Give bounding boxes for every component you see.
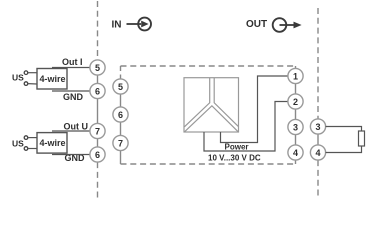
svg-text:2: 2 xyxy=(293,97,298,107)
terminal circle 6 (sensor rail) xyxy=(90,83,105,98)
svg-text:GND: GND xyxy=(63,92,84,102)
amplifier chevron stroke xyxy=(184,106,238,132)
svg-text:5: 5 xyxy=(95,63,100,73)
svg-text:OUT: OUT xyxy=(246,19,267,30)
device terminal circle 7 xyxy=(113,135,128,150)
svg-text:Power: Power xyxy=(225,143,249,152)
terminal circle 6 second (sensor rail) xyxy=(90,147,105,162)
device terminal circle 1 xyxy=(288,68,303,83)
svg-text:6: 6 xyxy=(95,150,100,160)
load wire from terminal 3 xyxy=(326,127,362,132)
terminal circle 5 (sensor rail) xyxy=(90,60,105,75)
wire Out I to terminal 5 xyxy=(52,67,90,69)
wire GND to terminal 6 (second) xyxy=(52,154,90,156)
svg-text:1: 1 xyxy=(293,72,298,82)
svg-text:4-wire: 4-wire xyxy=(40,138,66,148)
svg-text:IN: IN xyxy=(112,20,122,31)
svg-text:6: 6 xyxy=(118,110,123,120)
load resistor xyxy=(359,131,365,146)
left sensor-side dashed rail xyxy=(97,1,99,200)
svg-text:Out U: Out U xyxy=(64,122,89,132)
device terminal circle 6 xyxy=(113,107,128,122)
amplifier Y-symbol stroke 2 xyxy=(214,78,238,127)
amplifier Y-symbol stroke 1 xyxy=(184,78,209,127)
wire dot to 4-wire box top-a xyxy=(28,72,37,74)
device terminal circle 3 xyxy=(288,119,303,134)
wire Out U to terminal 7 xyxy=(52,130,90,132)
svg-text:4: 4 xyxy=(315,148,320,158)
svg-text:3: 3 xyxy=(315,122,320,132)
svg-text:4-wire: 4-wire xyxy=(40,74,66,84)
svg-text:6: 6 xyxy=(95,87,100,97)
terminal circle 7 (sensor rail) xyxy=(90,123,105,138)
svg-text:5: 5 xyxy=(118,82,123,92)
US terminal dot top-b xyxy=(24,82,28,86)
load wire from terminal 4 xyxy=(326,146,362,153)
device terminal circle 4 xyxy=(288,145,303,160)
right field-side dashed rail xyxy=(317,8,319,197)
svg-text:3: 3 xyxy=(293,123,298,133)
svg-text:US: US xyxy=(12,139,24,149)
device terminal circle 5 xyxy=(113,79,128,94)
US terminal dot bottom-a xyxy=(24,136,28,140)
device dashed outline box xyxy=(121,66,296,164)
wire GND to terminal 6 xyxy=(52,90,90,92)
4-wire transmitter box (bottom) xyxy=(37,133,67,154)
svg-text:Out I: Out I xyxy=(62,57,83,67)
US terminal dot bottom-b xyxy=(24,147,28,151)
svg-text:4: 4 xyxy=(293,148,298,158)
wire dot to 4-wire box bottom-a xyxy=(28,137,37,139)
power wire to terminal 2 xyxy=(204,102,288,152)
svg-text:US: US xyxy=(12,73,24,83)
IN port symbol xyxy=(127,18,152,31)
power wire to terminal 1 xyxy=(221,76,288,143)
field terminal circle 4 xyxy=(310,145,325,160)
4-wire transmitter box (top) xyxy=(37,69,67,90)
US terminal dot top-a xyxy=(24,71,28,75)
wire dot to 4-wire box top-b xyxy=(28,83,37,85)
OUT port symbol xyxy=(273,18,302,32)
field terminal circle 3 xyxy=(310,119,325,134)
device terminal circle 2 xyxy=(288,94,303,109)
wire dot to 4-wire box bottom-b xyxy=(28,148,37,150)
svg-text:7: 7 xyxy=(95,127,100,137)
svg-text:10 V...30 V DC: 10 V...30 V DC xyxy=(208,154,261,163)
isolation amplifier box U1 xyxy=(184,78,239,132)
svg-text:7: 7 xyxy=(118,139,123,149)
